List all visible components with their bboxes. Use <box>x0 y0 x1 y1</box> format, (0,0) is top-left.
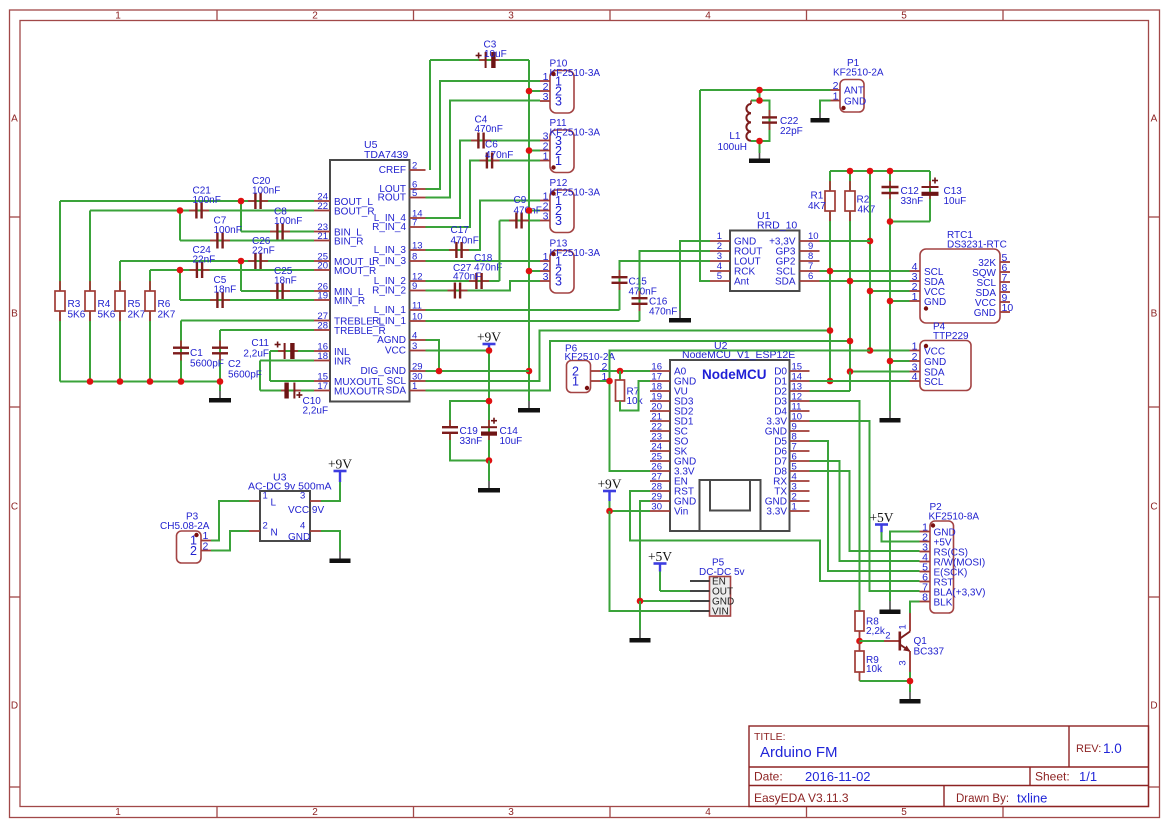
resistor R3 <box>59 281 61 291</box>
svg-text:5: 5 <box>901 11 907 22</box>
U2 pin 3 TX <box>790 490 810 492</box>
wire INL to MUXOUTL <box>269 351 271 381</box>
U2 pin 15 D0 <box>790 370 810 372</box>
wire to tank top <box>759 90 761 101</box>
svg-text:+9V: +9V <box>597 477 621 492</box>
connector P12 KF2510-3A body <box>550 190 574 233</box>
wire R_IN_1 to C16 <box>426 320 640 322</box>
svg-text:5K6: 5K6 <box>98 310 116 321</box>
wire gnd vertical x529 <box>528 60 530 401</box>
svg-text:22: 22 <box>317 201 328 212</box>
inductor L1 <box>750 101 752 105</box>
svg-text:3: 3 <box>508 11 514 22</box>
svg-text:10k: 10k <box>627 396 644 407</box>
U1 pin 7 SCL <box>800 270 820 272</box>
wire P4 SDA row <box>850 371 910 373</box>
svg-text:10uF: 10uF <box>484 49 507 60</box>
wire base <box>860 640 885 642</box>
wire R1 column / SCL net <box>829 171 831 381</box>
capacitor C27 <box>448 290 455 292</box>
svg-text:B: B <box>11 309 18 320</box>
wire D2 to SDA riser <box>810 390 851 392</box>
wire SDA riser lower <box>849 372 851 392</box>
svg-text:22nF: 22nF <box>252 246 275 257</box>
RTC1 pin 1 GND <box>910 300 921 302</box>
P10 pin 1 <box>540 80 550 82</box>
wire C3 row <box>430 59 529 61</box>
U2 pin 27 EN <box>650 480 670 482</box>
svg-text:GND: GND <box>924 297 946 308</box>
wire P5 OUT row <box>660 590 690 592</box>
svg-text:NodeMCU: NodeMCU <box>702 367 767 382</box>
P10 pin 3 <box>540 100 550 102</box>
wire U3 VCC to +9V <box>321 482 340 501</box>
RTC1 pin 8 SDA <box>1000 291 1010 293</box>
svg-text:100nF: 100nF <box>252 186 280 197</box>
svg-text:17: 17 <box>317 381 328 392</box>
U2 pin 2 GND <box>790 500 810 502</box>
capacitor C20 <box>248 200 255 202</box>
wire P6 pin1 to 3.3V pin26 <box>610 381 651 471</box>
junction dots 3.3V bus <box>847 168 854 175</box>
ground symbol P5 GND <box>639 630 641 639</box>
svg-text:470nF: 470nF <box>485 150 513 161</box>
RTC1 pin 9 VCC <box>1000 301 1010 303</box>
P13 pin 2 <box>540 270 550 272</box>
svg-text:SDA: SDA <box>775 277 796 288</box>
svg-text:C: C <box>11 502 18 513</box>
capacitor C22 <box>769 110 771 117</box>
U5 pin 21 BIN_R <box>314 240 330 242</box>
wire R7 bottom to GND pin <box>620 381 650 411</box>
svg-text:+9V: +9V <box>328 457 352 472</box>
U1 pin 5 Ant <box>710 280 730 282</box>
junction dot P5 GND <box>637 598 644 605</box>
wire P3 pin2 to U3 N <box>211 531 249 551</box>
U2 pin 10 3.3V <box>790 420 810 422</box>
wire U3 GND to ground <box>321 531 340 552</box>
U5 pin 18 INR <box>314 360 330 362</box>
U3 pin 3 VCC <box>310 500 321 502</box>
junction dot R7 top <box>617 368 624 375</box>
wire C19 branch top <box>450 401 489 427</box>
svg-text:3: 3 <box>555 214 562 228</box>
junction dot VCC <box>486 347 493 354</box>
wire P11 pin2 branch <box>529 150 540 152</box>
ground symbol left bus <box>219 382 221 392</box>
wire L_IN_2 to C18 <box>426 280 500 282</box>
resistor R9 <box>859 641 861 651</box>
wire D1 to P4 SCL row <box>810 380 910 382</box>
svg-text:MOUT_R: MOUT_R <box>334 266 376 277</box>
P2 pin 6 RST <box>920 581 931 583</box>
svg-text:8: 8 <box>412 252 417 263</box>
svg-text:8: 8 <box>922 592 928 604</box>
svg-text:2,2k: 2,2k <box>866 626 886 637</box>
svg-text:GND: GND <box>974 308 996 319</box>
U1 pin 9 GP3 <box>800 250 820 252</box>
svg-text:470nF: 470nF <box>453 272 481 283</box>
capacitor C15 <box>619 270 621 277</box>
U5 pin 9 R_IN_2 <box>410 290 426 292</box>
svg-text:Ant: Ant <box>734 277 749 288</box>
U2 pin 9 GND <box>790 430 810 432</box>
junction dots GND vertical <box>526 88 533 95</box>
U5 pin 29 DIG_GND <box>410 370 426 372</box>
svg-text:3: 3 <box>412 341 417 352</box>
RTC1 pin 3 SDA <box>910 280 921 282</box>
svg-text:11: 11 <box>412 301 422 312</box>
svg-text:2016-11-02: 2016-11-02 <box>805 769 871 784</box>
svg-text:L_IN_3: L_IN_3 <box>374 245 407 256</box>
svg-text:C1: C1 <box>190 348 203 359</box>
P11 pin 3 <box>540 140 550 142</box>
svg-text:C2: C2 <box>228 359 241 370</box>
svg-text:Q1: Q1 <box>914 636 928 647</box>
svg-text:10uF: 10uF <box>944 196 967 207</box>
svg-text:30: 30 <box>651 502 662 513</box>
svg-text:L: L <box>271 498 277 509</box>
U5 pin 8 R_IN_3 <box>410 260 426 262</box>
wire 3.3V pin10 to P2 BLA <box>810 421 920 591</box>
svg-text:2: 2 <box>412 161 417 172</box>
U5 pin 28 TREBLE_R <box>314 329 330 331</box>
capacitor C21 <box>189 210 196 212</box>
capacitor C6 <box>480 160 487 162</box>
wire R5 column <box>119 261 121 382</box>
connector P11 KF2510-3A body <box>550 130 574 173</box>
svg-text:BC337: BC337 <box>914 647 945 658</box>
svg-text:KF2510-8A: KF2510-8A <box>929 512 980 523</box>
wire MOUT_L row <box>120 260 314 262</box>
svg-text:L_IN_1: L_IN_1 <box>374 305 407 316</box>
connector P1 KF2510-2A body <box>840 80 864 113</box>
wire Vin riser to P5 VIN <box>610 511 691 611</box>
svg-text:2,2uF: 2,2uF <box>243 349 269 360</box>
U2 pin 4 RX <box>790 480 810 482</box>
ground symbol P2 GND <box>889 601 891 611</box>
U5 pin 15 MUXOUTL <box>314 380 330 382</box>
ic U1 RRD_10 body <box>730 231 800 292</box>
svg-text:13: 13 <box>412 241 423 252</box>
wire R4 column <box>89 211 91 382</box>
wire MIN_R row <box>180 299 314 301</box>
wire to ground below C14 <box>488 461 490 482</box>
U2 pin 18 VU <box>650 390 670 392</box>
svg-text:D: D <box>11 701 18 712</box>
wire tank bottom left <box>751 140 760 142</box>
resistor R5 <box>119 281 121 291</box>
svg-text:TITLE:: TITLE: <box>754 731 786 743</box>
svg-text:ROUT: ROUT <box>378 193 406 204</box>
capacitor C16 <box>639 291 641 298</box>
wire U1 Ant riser <box>700 90 710 281</box>
P12 pin 1 <box>540 200 550 202</box>
capacitor C17 <box>449 249 456 251</box>
wire MUXOUTR row <box>260 390 314 392</box>
capacitor C13 column <box>929 171 931 222</box>
wire P3 pin1 to U3 L <box>211 501 249 541</box>
svg-text:18nF: 18nF <box>214 285 237 296</box>
svg-text:4: 4 <box>412 331 417 342</box>
svg-text:C6: C6 <box>485 140 498 151</box>
wire INR to MUXOUTR <box>259 361 261 391</box>
U2 pin 13 D2 <box>790 390 810 392</box>
U2 pin 30 Vin <box>650 510 670 512</box>
U2 pin 20 SD2 <box>650 410 670 412</box>
svg-text:txline: txline <box>1017 791 1047 806</box>
U5 pin 30 SCL <box>410 380 426 382</box>
svg-text:3: 3 <box>555 275 562 289</box>
P2 pin 8 BLK <box>920 601 931 603</box>
wire R9 bottom to emitter <box>860 680 911 682</box>
U5 pin 25 MOUT_L <box>314 260 330 262</box>
wire P4 GND row <box>890 360 910 362</box>
svg-text:18: 18 <box>317 351 328 362</box>
power flag +9V at U3 <box>339 471 341 482</box>
svg-text:Arduino FM: Arduino FM <box>760 744 838 761</box>
svg-text:5K6: 5K6 <box>68 310 86 321</box>
wire D5 to P2 E(SCK) <box>810 441 920 571</box>
capacitor C25 <box>270 290 277 292</box>
svg-text:R5: R5 <box>128 299 141 310</box>
title block <box>749 726 1149 807</box>
svg-text:3.3V: 3.3V <box>766 507 787 518</box>
U5 pin 23 BIN_L <box>314 231 330 233</box>
capacitor C13 <box>929 181 931 187</box>
wire R_IN_2 to C27 to P13 pin3 <box>426 281 541 291</box>
RTC1 pin 7 SCL <box>1000 281 1010 283</box>
U5 pin 20 MOUT_R <box>314 269 330 271</box>
svg-text:TTP229: TTP229 <box>933 331 969 342</box>
svg-text:KF2510-2A: KF2510-2A <box>565 352 616 363</box>
P12 pin 2 <box>540 210 550 212</box>
wire CREF riser <box>429 60 431 170</box>
ground symbol U1 <box>679 311 681 319</box>
wire R_IN_3 to P13 pin1 <box>426 260 541 262</box>
svg-text:470nF: 470nF <box>649 307 677 318</box>
wire +3.3V riser <box>869 171 871 351</box>
svg-text:R_IN_3: R_IN_3 <box>372 256 406 267</box>
wire C12/C13 bottom join <box>890 221 930 223</box>
U1 pin 3 LOUT <box>710 260 730 262</box>
U5 pin 11 L_IN_1 <box>410 309 426 311</box>
svg-text:Sheet:: Sheet: <box>1035 770 1070 784</box>
P2 pin 1 GND <box>920 531 931 533</box>
svg-text:2,2uF: 2,2uF <box>303 406 329 417</box>
U5 pin 16 INL <box>314 350 330 352</box>
svg-text:100nF: 100nF <box>193 195 221 206</box>
U2 pin 12 D3 <box>790 400 810 402</box>
capacitor C8 <box>270 231 277 233</box>
wire P13 pin2 branch <box>529 270 540 272</box>
U5 pin 14 L_IN_4 <box>410 217 426 219</box>
P12 pin 3 <box>540 220 550 222</box>
svg-text:1: 1 <box>833 91 839 103</box>
wire Vin row <box>610 510 651 512</box>
svg-text:1: 1 <box>263 491 268 502</box>
wire ROUT riser <box>426 101 541 198</box>
svg-text:2: 2 <box>885 631 890 642</box>
svg-text:1: 1 <box>792 502 797 513</box>
svg-text:R_IN_1: R_IN_1 <box>372 316 406 327</box>
wire C22 branch <box>760 101 770 142</box>
wire P12 pin2 branch <box>529 210 540 212</box>
ic RTC1 DS3231-RTC body <box>920 249 1000 323</box>
ic U5 TDA7439 body <box>330 160 410 402</box>
wire D3 to R8 <box>810 401 860 611</box>
U2 pin 5 D8 <box>790 470 810 472</box>
U2 pin 28 RST <box>650 490 670 492</box>
svg-text:MIN_R: MIN_R <box>334 296 365 307</box>
wire RTC1 GND branch <box>890 300 910 302</box>
svg-text:1: 1 <box>572 375 579 389</box>
U3 pin 1 L <box>249 500 260 502</box>
wire 3.3V top bus <box>830 170 930 172</box>
wire P6 pin1 net <box>600 380 610 382</box>
svg-text:3: 3 <box>300 491 305 502</box>
junction dot AGND-DIGGND <box>436 368 443 375</box>
svg-text:VCC 9V: VCC 9V <box>288 505 324 516</box>
svg-text:5600pF: 5600pF <box>228 370 262 381</box>
connector P13 KF2510-3A body <box>550 251 574 294</box>
svg-text:MUXOUTR: MUXOUTR <box>334 387 385 398</box>
wire VCC riser down <box>488 351 490 461</box>
capacitor C12 column <box>889 171 891 222</box>
resistor R8 <box>859 610 861 612</box>
svg-text:D: D <box>1150 701 1157 712</box>
svg-text:22pF: 22pF <box>780 126 803 137</box>
RTC1 pin 5 32K <box>1000 261 1010 263</box>
svg-text:28: 28 <box>317 321 328 332</box>
capacitor C1 <box>180 341 182 348</box>
wire U1 GND to ground <box>680 241 710 311</box>
connector P6 KF2510-2A body <box>567 361 591 393</box>
capacitor C4 <box>471 140 478 142</box>
svg-text:1: 1 <box>898 624 909 629</box>
svg-text:100nF: 100nF <box>274 216 302 227</box>
svg-text:10k: 10k <box>866 664 883 675</box>
wire RST to P2 <box>630 491 920 581</box>
U5 pin 22 BOUT_R <box>314 210 330 212</box>
P5 pin VIN <box>690 610 710 612</box>
U1 pin 8 GP2 <box>800 260 820 262</box>
U2 pin 19 SD3 <box>650 400 670 402</box>
svg-text:4: 4 <box>705 807 711 818</box>
P2 pin 4 R/W(MOSI) <box>920 561 931 563</box>
resistor R6 <box>149 281 151 291</box>
junction dot R8/R9 <box>856 638 863 645</box>
wire R2 column / SDA net <box>849 171 851 391</box>
svg-text:VIN: VIN <box>712 607 729 618</box>
svg-text:1: 1 <box>543 151 549 163</box>
wire MUXOUTL row <box>270 380 314 382</box>
junction dot emitter <box>907 678 914 685</box>
RTC1 pin 10 GND <box>1000 311 1010 313</box>
capacitor C11 <box>278 350 285 352</box>
wire riser to BIN_R <box>179 211 181 241</box>
wire SCL bus from U5 <box>426 331 831 382</box>
U5 pin 26 MIN_L <box>314 290 330 292</box>
svg-text:3: 3 <box>508 807 514 818</box>
U2 pin 25 GND <box>650 460 670 462</box>
capacitor C9 <box>509 220 516 222</box>
U5 pin 5 ROUT <box>410 197 426 199</box>
wire D8 to P2 RS(CS) <box>810 471 920 551</box>
capacitor C5 <box>210 299 217 301</box>
U5 pin 24 BOUT_L <box>314 200 330 202</box>
svg-text:4K7: 4K7 <box>858 205 876 216</box>
wire GND29 to P5 GND <box>640 501 650 601</box>
U1 pin 10 +3,3V <box>800 240 820 242</box>
RTC1 pin 4 SCL <box>910 270 921 272</box>
transistor Q1 BC337 <box>884 640 900 642</box>
U1 pin 4 RCK <box>710 270 730 272</box>
wire U1 SDA to RTC1 <box>820 280 910 282</box>
svg-text:GND: GND <box>288 532 310 543</box>
wire L_IN_4 to C4 <box>426 141 541 219</box>
wire RTC1 VCC branch <box>870 290 910 292</box>
wire riser to MIN_R <box>179 270 181 300</box>
svg-text:GND: GND <box>844 97 866 108</box>
wire tank to ground <box>759 141 761 153</box>
U5 pin 27 TREBLE_L <box>314 320 330 322</box>
connector P2 KF2510-8A body <box>930 521 954 613</box>
wire R3 column <box>59 201 61 382</box>
P2 pin 7 BLA(+3,3V) <box>920 591 931 593</box>
svg-text:1/1: 1/1 <box>1079 769 1097 784</box>
wire L_IN_3 to C17 to P12 pin1 <box>426 201 541 251</box>
wire C9 row to P13... P12 pin3 <box>500 220 541 222</box>
svg-text:100nF: 100nF <box>214 225 242 236</box>
svg-text:DS3231-RTC: DS3231-RTC <box>947 240 1007 251</box>
U2 pin 26 3.3V <box>650 470 670 472</box>
wire P6 pin2 to A0 <box>600 370 650 372</box>
svg-text:SDA: SDA <box>385 386 406 397</box>
wire P1 GND to ground <box>820 101 831 113</box>
RTC1 pin 2 VCC <box>910 290 921 292</box>
svg-text:1: 1 <box>115 11 121 22</box>
ground symbol GND riser <box>889 411 891 419</box>
wire VCC row <box>426 350 490 352</box>
wire Q1 collector to BLK <box>910 602 920 614</box>
wire riser to MIN_L <box>240 261 242 291</box>
svg-text:A: A <box>1151 114 1158 125</box>
svg-text:KF2510-2A: KF2510-2A <box>833 68 884 79</box>
svg-text:L1: L1 <box>729 131 741 142</box>
P6 pin 2 <box>591 370 601 372</box>
connector P5 DC-DC body <box>710 577 731 617</box>
U2 pin 21 SD1 <box>650 420 670 422</box>
wire R6 column <box>149 270 151 382</box>
P11 pin 2 <box>540 150 550 152</box>
svg-text:VCC: VCC <box>385 346 406 357</box>
U5 pin 13 L_IN_3 <box>410 249 426 251</box>
svg-text:INR: INR <box>334 357 351 368</box>
junction dot Vin <box>606 508 613 515</box>
capacitor C2 <box>219 341 221 348</box>
ic U2 NodeMCU body <box>670 360 790 531</box>
svg-text:1: 1 <box>555 154 562 168</box>
svg-text:18nF: 18nF <box>274 276 297 287</box>
capacitor C19 <box>449 420 451 427</box>
U5 pin 1 SDA <box>410 390 426 392</box>
P11 pin 1 <box>540 160 550 162</box>
wire C15 riser to U1 LOUT <box>620 261 711 310</box>
U3 pin 4 GND <box>310 530 321 532</box>
svg-text:2: 2 <box>263 521 268 532</box>
wire emitter to ground <box>909 672 911 692</box>
